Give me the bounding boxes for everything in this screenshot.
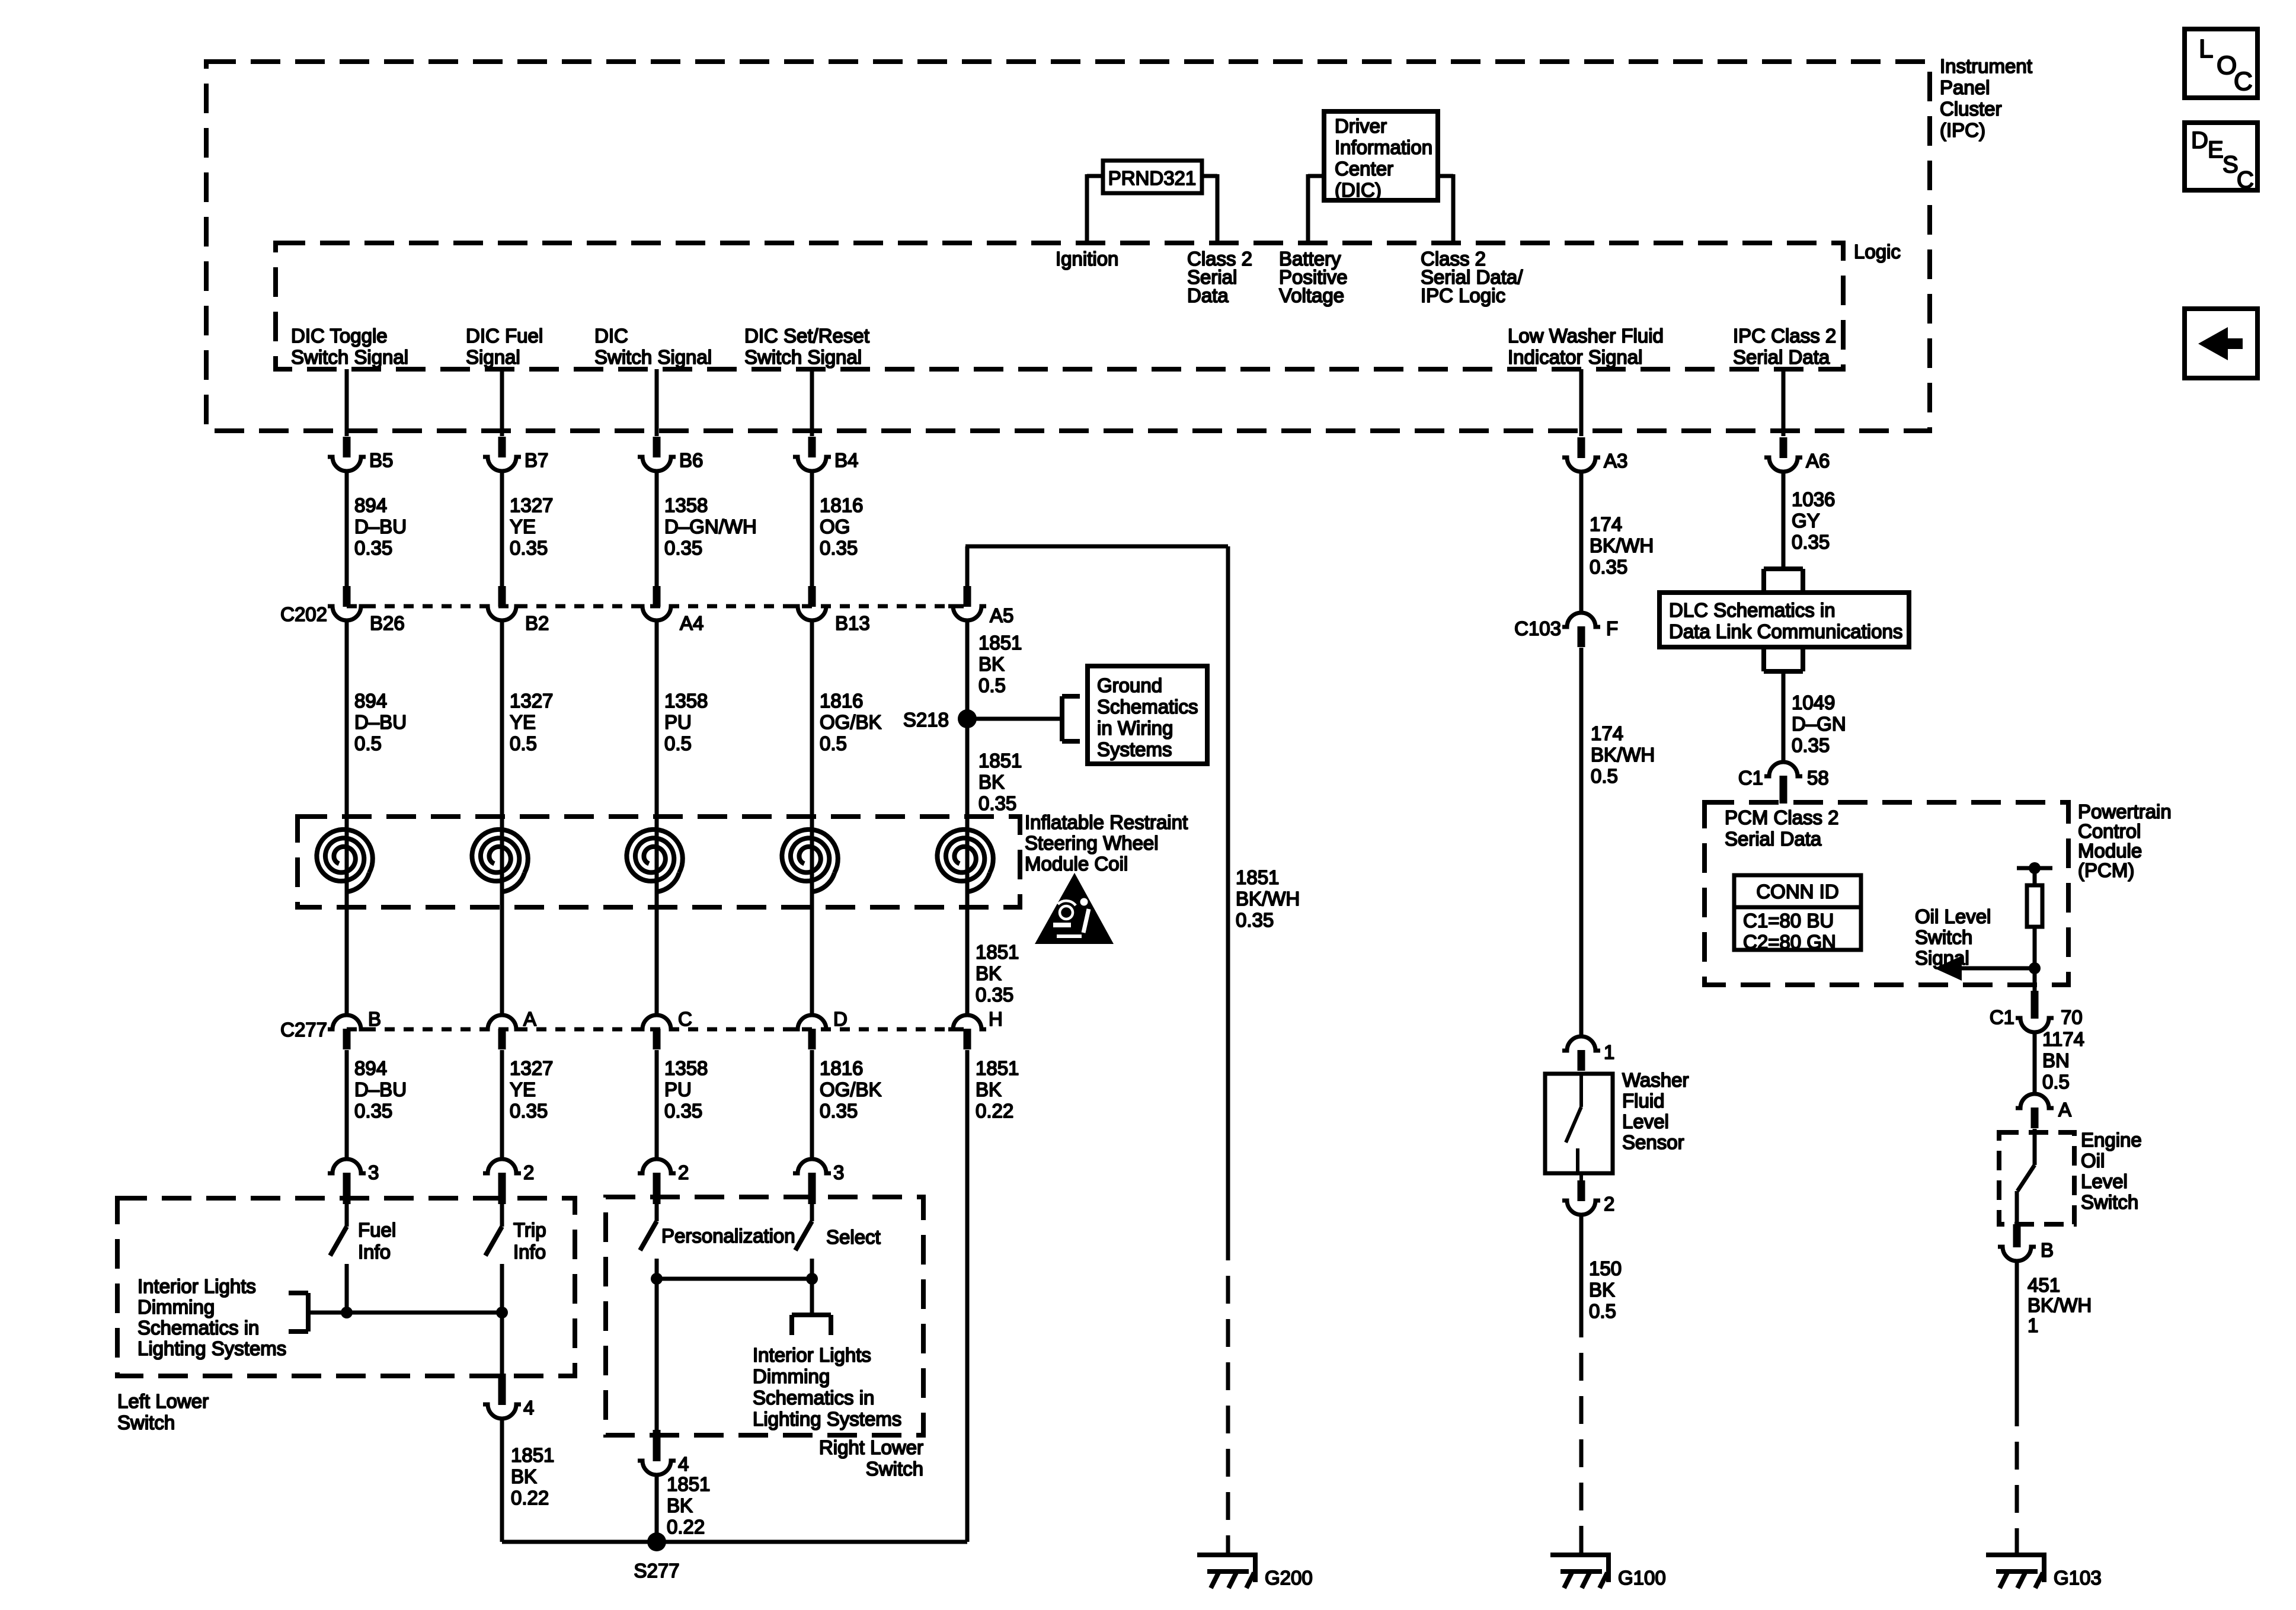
svg-text:A3: A3 [1604, 450, 1627, 472]
svg-text:B5: B5 [369, 449, 393, 471]
svg-text:Switch Signal: Switch Signal [594, 346, 712, 368]
svg-text:1851: 1851 [511, 1444, 554, 1466]
svg-text:Ground: Ground [1097, 674, 1162, 696]
svg-text:0.5: 0.5 [820, 732, 847, 754]
svg-text:0.35: 0.35 [510, 537, 548, 559]
svg-text:4: 4 [523, 1397, 534, 1419]
svg-text:D: D [833, 1008, 848, 1030]
svg-text:Engine: Engine [2081, 1129, 2142, 1151]
svg-text:0.22: 0.22 [667, 1516, 705, 1538]
svg-text:Switch Signal: Switch Signal [291, 346, 408, 368]
svg-text:S218: S218 [903, 709, 949, 731]
svg-text:Interior Lights: Interior Lights [137, 1275, 256, 1297]
svg-text:58: 58 [1807, 767, 1829, 789]
svg-text:Switch: Switch [2081, 1191, 2138, 1213]
svg-text:Cluster: Cluster [1940, 98, 2002, 120]
svg-text:1851: 1851 [976, 1057, 1019, 1079]
svg-text:0.35: 0.35 [664, 1100, 702, 1122]
svg-text:Information: Information [1335, 136, 1432, 158]
svg-text:A: A [2058, 1099, 2071, 1121]
svg-text:DIC: DIC [594, 325, 628, 347]
svg-text:Dimming: Dimming [137, 1296, 215, 1318]
svg-text:(PCM): (PCM) [2078, 859, 2134, 881]
svg-text:0.35: 0.35 [820, 537, 858, 559]
svg-text:70: 70 [2061, 1006, 2083, 1028]
svg-text:Fluid: Fluid [1622, 1090, 1665, 1112]
svg-text:Control: Control [2078, 820, 2141, 842]
svg-text:YE: YE [510, 711, 536, 733]
svg-text:0.35: 0.35 [354, 1100, 392, 1122]
svg-text:Module: Module [2078, 840, 2142, 862]
svg-text:0.35: 0.35 [354, 537, 392, 559]
svg-text:Signal: Signal [1915, 947, 1969, 969]
svg-text:PU: PU [664, 711, 692, 733]
svg-text:B: B [2041, 1239, 2054, 1261]
svg-text:0.5: 0.5 [1591, 765, 1618, 787]
svg-text:Lighting Systems: Lighting Systems [137, 1337, 286, 1359]
svg-text:1049: 1049 [1792, 692, 1835, 713]
svg-text:2: 2 [678, 1161, 689, 1183]
svg-text:DLC Schematics in: DLC Schematics in [1669, 599, 1835, 621]
svg-text:Serial Data: Serial Data [1725, 828, 1822, 850]
svg-text:DIC Fuel: DIC Fuel [466, 325, 543, 347]
svg-text:D: D [2191, 127, 2208, 153]
svg-text:Level: Level [2081, 1170, 2128, 1192]
svg-text:894: 894 [354, 690, 387, 712]
svg-text:2: 2 [1604, 1193, 1614, 1215]
svg-text:BK: BK [978, 771, 1005, 793]
svg-text:0.5: 0.5 [1589, 1300, 1616, 1322]
svg-text:B2: B2 [525, 612, 549, 634]
svg-text:PU: PU [664, 1078, 692, 1100]
svg-text:Left Lower: Left Lower [117, 1390, 209, 1412]
svg-text:D–GN: D–GN [1792, 713, 1846, 735]
svg-text:1851: 1851 [978, 632, 1022, 654]
svg-text:C2=80 GN: C2=80 GN [1743, 931, 1836, 953]
svg-text:Info: Info [513, 1241, 546, 1263]
svg-text:Systems: Systems [1097, 738, 1172, 760]
svg-text:1174: 1174 [2042, 1028, 2084, 1050]
svg-text:GY: GY [1792, 510, 1820, 532]
svg-text:BK/WH: BK/WH [1591, 744, 1655, 766]
svg-text:D–BU: D–BU [354, 1078, 407, 1100]
svg-text:B: B [368, 1008, 381, 1030]
svg-text:CONN ID: CONN ID [1756, 881, 1838, 902]
svg-text:1327: 1327 [510, 494, 553, 516]
svg-text:BK/WH: BK/WH [1590, 534, 1654, 556]
svg-text:BK: BK [511, 1465, 537, 1487]
svg-text:1816: 1816 [820, 494, 863, 516]
svg-text:1358: 1358 [664, 1057, 708, 1079]
svg-text:451: 451 [2028, 1274, 2060, 1296]
svg-text:IPC Class 2: IPC Class 2 [1733, 325, 1836, 347]
svg-text:Serial Data: Serial Data [1733, 346, 1830, 368]
svg-text:D–BU: D–BU [354, 516, 407, 537]
svg-text:D–BU: D–BU [354, 711, 407, 733]
svg-text:0.5: 0.5 [2042, 1071, 2070, 1093]
svg-text:Lighting Systems: Lighting Systems [753, 1408, 901, 1430]
svg-text:E: E [2208, 137, 2224, 163]
svg-text:2: 2 [523, 1161, 534, 1183]
svg-text:0.35: 0.35 [976, 984, 1013, 1006]
svg-text:BN: BN [2042, 1049, 2070, 1071]
svg-text:Washer: Washer [1622, 1069, 1689, 1091]
svg-text:(IPC): (IPC) [1940, 119, 1985, 141]
svg-text:1851: 1851 [667, 1473, 710, 1495]
svg-text:1: 1 [2028, 1314, 2038, 1336]
svg-text:Indicator Signal: Indicator Signal [1508, 346, 1642, 368]
svg-text:1851: 1851 [1236, 866, 1279, 888]
svg-text:C: C [678, 1008, 692, 1030]
svg-text:C1: C1 [1738, 767, 1763, 789]
svg-text:Select: Select [826, 1226, 881, 1248]
svg-text:C1: C1 [1990, 1006, 2014, 1028]
svg-text:0.35: 0.35 [664, 537, 702, 559]
svg-text:S277: S277 [634, 1560, 679, 1582]
svg-text:L: L [2199, 34, 2213, 63]
svg-text:C: C [2234, 67, 2253, 96]
svg-text:Driver: Driver [1335, 115, 1387, 137]
svg-text:C277: C277 [280, 1019, 327, 1041]
svg-text:3: 3 [368, 1161, 379, 1183]
svg-text:Low Washer Fluid: Low Washer Fluid [1508, 325, 1664, 347]
svg-text:Switch: Switch [1915, 926, 1972, 948]
svg-text:BK/WH: BK/WH [1236, 888, 1300, 910]
svg-text:Interior Lights: Interior Lights [753, 1344, 871, 1366]
svg-text:C103: C103 [1514, 617, 1561, 639]
svg-text:Trip: Trip [513, 1219, 546, 1241]
svg-text:Panel: Panel [1940, 76, 1990, 98]
svg-text:D–GN/WH: D–GN/WH [664, 516, 757, 537]
svg-text:Oil: Oil [2081, 1150, 2105, 1172]
svg-text:0.5: 0.5 [354, 732, 382, 754]
svg-text:BK: BK [978, 653, 1005, 675]
svg-text:BK: BK [976, 962, 1002, 984]
svg-text:1327: 1327 [510, 690, 553, 712]
svg-text:0.35: 0.35 [1236, 909, 1274, 931]
svg-text:OG: OG [820, 516, 850, 537]
svg-text:DIC Toggle: DIC Toggle [291, 325, 388, 347]
svg-text:A6: A6 [1806, 450, 1830, 472]
svg-text:Module Coil: Module Coil [1025, 853, 1128, 875]
svg-text:1851: 1851 [976, 941, 1019, 963]
svg-text:F: F [1606, 617, 1618, 639]
svg-text:Fuel: Fuel [358, 1219, 396, 1241]
svg-text:0.35: 0.35 [978, 792, 1016, 814]
svg-text:G200: G200 [1265, 1567, 1313, 1589]
svg-text:C: C [2237, 167, 2254, 193]
svg-text:1036: 1036 [1792, 488, 1835, 510]
svg-text:Dimming: Dimming [753, 1365, 830, 1387]
svg-text:G100: G100 [1618, 1567, 1666, 1589]
svg-text:(DIC): (DIC) [1335, 179, 1382, 201]
svg-text:BK/WH: BK/WH [2028, 1294, 2092, 1316]
svg-text:Info: Info [358, 1241, 391, 1263]
svg-text:B4: B4 [834, 449, 858, 471]
svg-text:Personalization: Personalization [661, 1225, 795, 1247]
svg-text:1358: 1358 [664, 494, 708, 516]
svg-text:BK: BK [667, 1494, 693, 1516]
svg-text:0.35: 0.35 [1590, 556, 1627, 578]
svg-text:BK: BK [976, 1078, 1002, 1100]
svg-text:in Wiring: in Wiring [1097, 717, 1173, 739]
svg-text:1327: 1327 [510, 1057, 553, 1079]
svg-text:B13: B13 [835, 612, 870, 634]
svg-text:Logic: Logic [1854, 241, 1901, 263]
svg-text:A5: A5 [990, 604, 1013, 626]
svg-text:A4: A4 [680, 612, 703, 634]
svg-text:Data Link Communications: Data Link Communications [1669, 620, 1902, 642]
svg-text:Ignition: Ignition [1056, 248, 1118, 270]
svg-text:BK: BK [1589, 1279, 1615, 1301]
svg-text:A: A [523, 1008, 536, 1030]
svg-text:C1=80 BU: C1=80 BU [1743, 910, 1834, 932]
svg-text:Oil Level: Oil Level [1915, 905, 1991, 927]
svg-text:0.35: 0.35 [1792, 734, 1830, 756]
svg-text:Switch: Switch [866, 1458, 923, 1480]
svg-text:YE: YE [510, 1078, 536, 1100]
svg-text:H: H [989, 1008, 1003, 1030]
svg-text:Switch Signal: Switch Signal [744, 346, 862, 368]
svg-text:1: 1 [1604, 1041, 1614, 1063]
svg-text:Level: Level [1622, 1110, 1669, 1132]
svg-text:0.5: 0.5 [510, 732, 537, 754]
svg-text:B26: B26 [370, 612, 405, 634]
svg-text:0.35: 0.35 [510, 1100, 548, 1122]
svg-text:OG/BK: OG/BK [820, 711, 882, 733]
svg-text:YE: YE [510, 516, 536, 537]
svg-text:174: 174 [1591, 722, 1623, 744]
svg-text:Data: Data [1187, 284, 1229, 306]
svg-text:PRND321: PRND321 [1108, 167, 1197, 189]
svg-text:Switch: Switch [117, 1411, 175, 1433]
svg-text:B6: B6 [679, 449, 703, 471]
svg-text:S: S [2223, 152, 2239, 178]
svg-text:Sensor: Sensor [1622, 1131, 1684, 1153]
svg-text:Powertrain: Powertrain [2078, 801, 2172, 822]
svg-text:B7: B7 [525, 449, 548, 471]
svg-text:Voltage: Voltage [1279, 284, 1344, 306]
svg-text:1851: 1851 [978, 750, 1022, 772]
svg-text:0.22: 0.22 [976, 1100, 1013, 1122]
svg-text:3: 3 [833, 1161, 844, 1183]
svg-text:PCM Class 2: PCM Class 2 [1725, 806, 1839, 828]
svg-text:0.22: 0.22 [511, 1487, 549, 1509]
svg-text:Schematics in: Schematics in [753, 1387, 874, 1409]
svg-text:Steering Wheel: Steering Wheel [1025, 832, 1159, 854]
svg-text:150: 150 [1589, 1257, 1622, 1279]
svg-text:1358: 1358 [664, 690, 708, 712]
svg-text:1816: 1816 [820, 690, 863, 712]
svg-text:Signal: Signal [466, 346, 520, 368]
svg-text:0.5: 0.5 [978, 674, 1006, 696]
svg-text:Center: Center [1335, 158, 1393, 180]
svg-text:0.35: 0.35 [820, 1100, 858, 1122]
svg-text:OG/BK: OG/BK [820, 1078, 882, 1100]
svg-text:Instrument: Instrument [1940, 55, 2032, 77]
svg-text:Schematics: Schematics [1097, 696, 1198, 718]
svg-text:1816: 1816 [820, 1057, 863, 1079]
svg-text:DIC Set/Reset: DIC Set/Reset [744, 325, 869, 347]
svg-text:C202: C202 [280, 603, 327, 625]
svg-text:0.5: 0.5 [664, 732, 692, 754]
svg-text:Schematics in: Schematics in [137, 1317, 259, 1339]
svg-text:174: 174 [1590, 513, 1622, 535]
svg-text:0.35: 0.35 [1792, 531, 1830, 553]
svg-text:4: 4 [678, 1453, 689, 1475]
svg-text:Right Lower: Right Lower [819, 1436, 923, 1458]
svg-text:894: 894 [354, 1057, 387, 1079]
svg-text:IPC Logic: IPC Logic [1421, 284, 1505, 306]
svg-text:Inflatable Restraint: Inflatable Restraint [1025, 811, 1188, 833]
svg-text:894: 894 [354, 494, 387, 516]
svg-text:G103: G103 [2054, 1567, 2102, 1589]
